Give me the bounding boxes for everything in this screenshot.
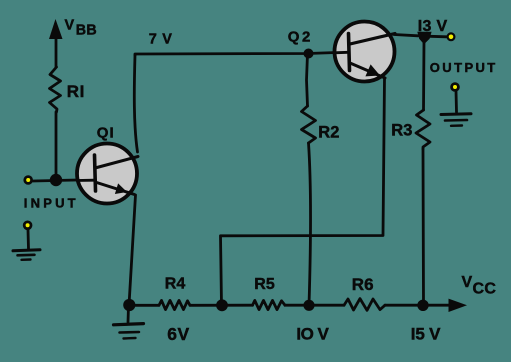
- svg-text:CC: CC: [473, 281, 497, 298]
- svg-text:RI: RI: [67, 82, 85, 101]
- svg-text:R3: R3: [391, 122, 412, 140]
- svg-text:INPUT: INPUT: [24, 196, 79, 211]
- svg-text:QI: QI: [97, 124, 115, 141]
- svg-text:Q2: Q2: [288, 29, 313, 46]
- svg-text:R6: R6: [352, 275, 374, 294]
- svg-text:R5: R5: [254, 276, 275, 293]
- svg-text:R2: R2: [318, 124, 339, 142]
- svg-text:IO V: IO V: [296, 324, 329, 343]
- svg-text:6V: 6V: [167, 324, 189, 344]
- svg-text:OUTPUT: OUTPUT: [430, 60, 498, 75]
- svg-text:I3 V: I3 V: [418, 18, 448, 35]
- svg-text:V: V: [462, 274, 473, 291]
- svg-text:BB: BB: [76, 23, 97, 39]
- svg-text:7 V: 7 V: [149, 32, 173, 48]
- svg-text:I5 V: I5 V: [411, 325, 441, 344]
- svg-text:V: V: [65, 17, 75, 33]
- svg-text:R4: R4: [165, 276, 186, 293]
